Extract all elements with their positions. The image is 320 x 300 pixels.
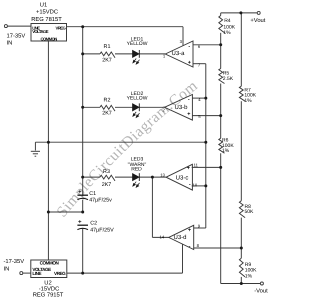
svg-text:C1: C1 (89, 191, 96, 197)
svg-text:2.5K: 2.5K (223, 76, 234, 82)
svg-text:R2: R2 (104, 98, 111, 104)
svg-text:14: 14 (160, 234, 165, 239)
svg-text:IN: IN (4, 266, 10, 272)
svg-text:1%: 1% (222, 148, 230, 154)
svg-text:VOLTAGE: VOLTAGE (32, 29, 49, 34)
svg-text:11: 11 (194, 163, 199, 168)
svg-text:+: + (187, 165, 190, 171)
svg-text:VREG: VREG (54, 271, 66, 276)
svg-text:+: + (188, 60, 191, 66)
svg-text:U3-d: U3-d (173, 234, 186, 241)
svg-text:17-35V: 17-35V (7, 33, 26, 40)
svg-text:-: - (188, 97, 190, 103)
svg-text:U2: U2 (44, 280, 51, 287)
svg-text:+15VDC: +15VDC (36, 9, 58, 16)
svg-text:47µF/25v: 47µF/25v (89, 198, 112, 204)
svg-text:1%: 1% (245, 273, 253, 279)
svg-text:C2: C2 (90, 220, 97, 226)
svg-text:U3-a: U3-a (171, 50, 185, 57)
svg-text:50K: 50K (245, 209, 255, 215)
svg-text:+: + (188, 228, 191, 234)
svg-text:VREG: VREG (56, 25, 66, 30)
svg-text:COMMON: COMMON (40, 261, 60, 266)
svg-text:+Vout: +Vout (250, 18, 265, 24)
svg-text:-: - (188, 44, 190, 50)
svg-text:47µF/25V: 47µF/25V (90, 228, 114, 234)
svg-text:RED: RED (131, 166, 142, 172)
svg-text:-Vout: -Vout (254, 289, 268, 295)
svg-text:REG 7815T: REG 7815T (31, 16, 62, 23)
svg-text:+: + (187, 112, 190, 118)
svg-text:YELLOW: YELLOW (127, 41, 148, 47)
svg-text:R1: R1 (104, 44, 111, 50)
svg-text:IN: IN (7, 41, 13, 47)
svg-text:LINE: LINE (32, 271, 41, 276)
svg-text:1%: 1% (244, 98, 252, 104)
svg-text:-: - (189, 244, 191, 250)
svg-text:2K7: 2K7 (102, 58, 112, 64)
svg-text:YELLOW: YELLOW (127, 95, 148, 101)
svg-text:-17-35V: -17-35V (4, 258, 25, 265)
svg-text:COMMON: COMMON (40, 37, 57, 42)
svg-text:2K7: 2K7 (102, 111, 112, 117)
svg-text:2K7: 2K7 (102, 182, 112, 188)
svg-text:13: 13 (160, 173, 165, 178)
svg-text:U3-b: U3-b (174, 104, 188, 111)
svg-text:-: - (189, 182, 191, 188)
svg-text:U3-c: U3-c (176, 175, 189, 182)
svg-text:REG 7915T: REG 7915T (33, 291, 64, 298)
svg-text:R4: R4 (224, 18, 231, 24)
svg-text:U1: U1 (40, 3, 47, 9)
svg-text:10: 10 (193, 182, 198, 187)
svg-text:R3: R3 (103, 169, 110, 175)
svg-text:1%: 1% (223, 30, 231, 36)
